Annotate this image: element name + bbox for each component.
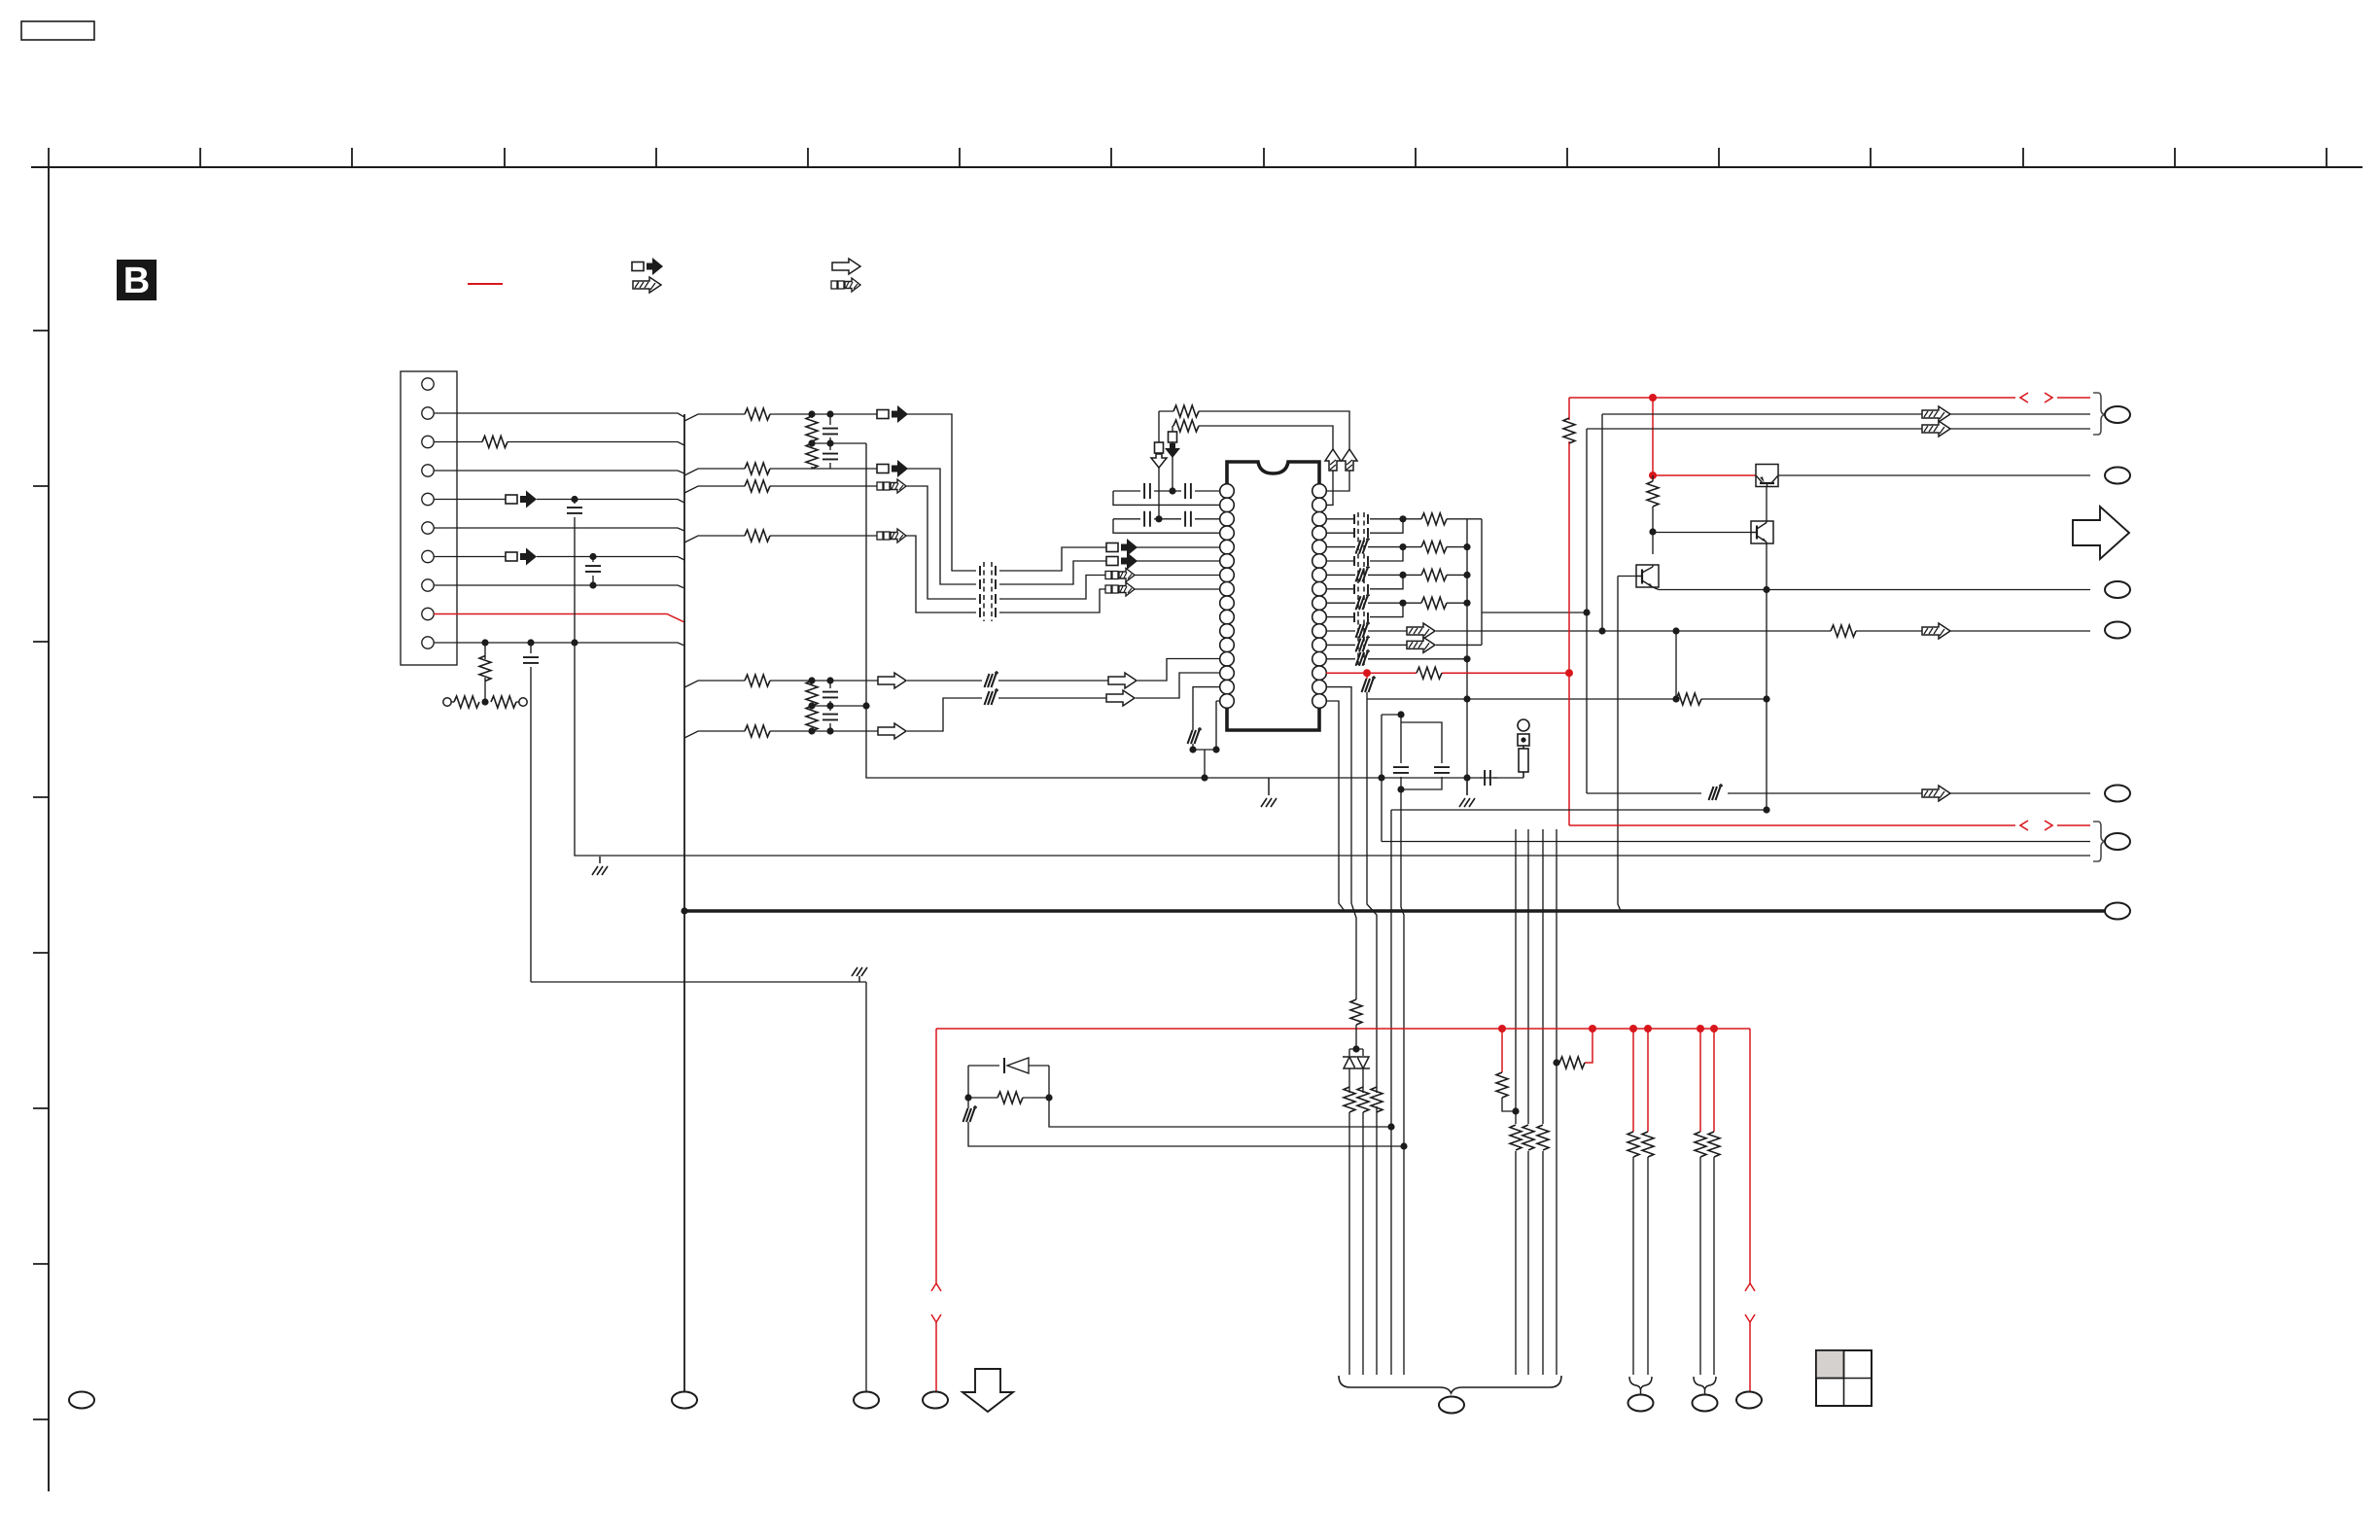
fork	[1349, 1049, 1363, 1056]
zener D-b2 down	[1356, 1057, 1370, 1068]
node bias end	[1763, 695, 1769, 702]
hollow arrow IC L13	[1108, 673, 1137, 688]
node p10-a	[481, 639, 488, 646]
brace output 1	[2093, 393, 2106, 435]
node bus / power line	[681, 907, 687, 914]
wire R10 row riser	[1326, 603, 1403, 616]
sheet label B	[117, 260, 157, 300]
multicap plates R6	[1354, 556, 1368, 566]
vertical net p5 column	[575, 500, 2090, 857]
hatched arrow R12	[1407, 637, 1435, 652]
vertical line4 feed	[1381, 778, 1382, 842]
wire R4 row riser	[1326, 519, 1403, 533]
wire row D	[684, 536, 878, 542]
wire row C to pin L7	[1135, 575, 1220, 577]
caps cluster node	[1397, 711, 1404, 717]
electrolytic cap R12	[1356, 635, 1371, 651]
wire osc line A	[1159, 411, 1349, 491]
electrolytic cap row F	[985, 688, 999, 705]
node R11 line b	[1672, 627, 1679, 634]
red drop to Q1	[1653, 398, 1756, 475]
red node pair1b	[1644, 1025, 1652, 1032]
frame top tick marks	[49, 148, 2327, 167]
parallel vertical	[1467, 519, 1587, 646]
svg-text:B: B	[123, 261, 150, 301]
red break marks left drop	[931, 1283, 941, 1322]
node p5	[571, 496, 577, 503]
resistor R-p10	[479, 656, 491, 682]
resistor R-b2	[1522, 1125, 1534, 1150]
resistor R-chEF1	[806, 681, 818, 706]
terminal ellipse red left	[923, 1392, 948, 1409]
terminal ellipse AGND bottom	[854, 1392, 879, 1409]
resistor R-out2	[1403, 546, 1421, 548]
wire down to P-ellipse	[865, 982, 867, 1392]
resistor R-bA3	[1371, 1087, 1382, 1112]
node red Q1	[1649, 472, 1657, 479]
legend jump arrow (to other page)	[632, 258, 663, 275]
thermistor component	[1518, 719, 1529, 731]
wire row F	[684, 731, 879, 738]
frame horizontal rule	[31, 166, 2362, 168]
resistor R-chAB1	[806, 416, 818, 441]
resistor R-chAB2	[806, 443, 818, 469]
wire pin3	[434, 442, 684, 446]
wire R3 row	[1326, 518, 1403, 520]
resistor R-p3	[482, 437, 507, 448]
red vertical supply	[1568, 398, 1570, 825]
red rail left drop	[935, 1029, 937, 1392]
node chain EF mid	[808, 702, 815, 709]
resistor R-rowA	[745, 408, 770, 420]
ground on long run	[599, 857, 601, 863]
wire R9 row	[1326, 602, 1403, 604]
wires below zeners	[1349, 1068, 1363, 1093]
node R3	[1399, 515, 1406, 522]
jump down arrow b	[1165, 432, 1180, 458]
terminal ellipse pair1	[1628, 1395, 1654, 1412]
wire R7 row	[1326, 574, 1403, 576]
hatched arrow line819	[1922, 786, 1950, 801]
node on b1	[1512, 1107, 1519, 1114]
wire Q3 base feed	[1618, 577, 1636, 912]
wire osc row L3	[1113, 518, 1220, 520]
pair2 drops	[1700, 1157, 1714, 1375]
connector CN body	[401, 371, 457, 665]
loop right out	[1049, 1098, 1391, 1127]
wire row F mid	[907, 698, 1107, 731]
node R9	[1399, 600, 1406, 607]
red power rail bottom	[936, 1028, 1750, 1030]
capacitor C-chAB1	[829, 418, 831, 440]
wire row C staircase	[906, 486, 1106, 599]
wire osc vert b	[1172, 426, 1173, 491]
resistor R-p2a	[1695, 1132, 1706, 1157]
wire osc row L1	[1113, 490, 1220, 492]
red node b1	[1498, 1025, 1506, 1032]
sense line819	[1587, 792, 2090, 794]
bus line	[683, 414, 685, 1392]
resistor R-bA1	[1344, 1087, 1355, 1112]
red break marks top	[2020, 393, 2052, 830]
resistor R-b3	[1537, 1125, 1549, 1150]
bundleB line3	[1542, 829, 1544, 1375]
terminal ellipse out2	[2105, 468, 2130, 484]
node line1179	[1400, 1142, 1407, 1149]
resistor R-p1a	[1627, 1132, 1639, 1157]
bundleB line1	[1515, 829, 1517, 1375]
red line 849	[1569, 824, 2090, 826]
multicap plates R3	[1354, 514, 1368, 524]
hatched arrow line441	[1922, 421, 1950, 437]
zener D-b1 up	[1343, 1057, 1356, 1068]
resistor R-out1	[1403, 518, 1421, 520]
wire AGND run	[531, 981, 866, 983]
resistor R-p1b	[1642, 1132, 1654, 1157]
resistor R-rowD	[745, 530, 770, 542]
terminal circle right	[519, 698, 527, 706]
hollow arrow row E	[878, 673, 906, 688]
wire pin8	[434, 585, 684, 588]
wire osc line B	[1172, 426, 1333, 505]
terminal ellipse out4	[2105, 622, 2130, 639]
resistor R-b1	[1510, 1125, 1522, 1150]
multicap plates R4	[1354, 528, 1368, 538]
down arrow	[962, 1369, 1013, 1412]
wire row B staircase	[907, 469, 1108, 584]
resistor R-p2b	[1708, 1132, 1720, 1157]
multicap common plates	[984, 562, 992, 621]
wire osc row L2	[1113, 491, 1220, 505]
node red topline	[1649, 394, 1657, 402]
bundle line3	[1367, 699, 1377, 1375]
connector pin 8	[422, 579, 434, 591]
capacitor C-osc2b	[1185, 511, 1191, 527]
red wire pin9	[434, 614, 684, 623]
resistor R-bias	[1676, 693, 1701, 705]
electrolytic cap R5	[1356, 538, 1371, 554]
wire R5 row	[1326, 546, 1403, 548]
wire row C	[684, 486, 878, 493]
connector pin 9	[422, 608, 434, 619]
wire pin6	[434, 528, 684, 531]
bundle line5	[1401, 789, 1404, 1375]
resistor R-rowF	[745, 725, 770, 737]
ground tap on return line	[1268, 778, 1270, 795]
node red a	[1363, 669, 1371, 677]
jump arrow IC L5	[1106, 539, 1137, 556]
wire row E mid	[907, 680, 1109, 682]
capacitor C-osc1b	[1185, 483, 1191, 499]
transistor Q1	[1756, 465, 1778, 487]
terminal ellipse power	[2105, 903, 2130, 920]
brace1 line426	[1602, 413, 2090, 415]
node p10-c	[571, 639, 577, 646]
00 arrow row C	[877, 479, 906, 493]
multicap plates R8	[1354, 584, 1368, 594]
brace output 2	[2093, 822, 2106, 861]
electrolytic loop	[967, 1098, 969, 1108]
rail dots	[1463, 543, 1470, 550]
resistor R-trim1	[451, 701, 454, 703]
terminal ellipse bus bottom	[672, 1392, 697, 1409]
RC chain A/B left resistor top	[808, 410, 815, 417]
up arrow R2	[1325, 449, 1341, 471]
wire p10a down	[484, 643, 486, 702]
node osc1	[1169, 487, 1175, 494]
electrolytic cap R9	[1356, 593, 1371, 610]
brace pair2	[1694, 1377, 1716, 1390]
terminal ellipse bundles	[1439, 1397, 1464, 1414]
node Q3 out	[1763, 586, 1769, 593]
jump arrow row B	[877, 460, 908, 477]
up arrow R1	[1342, 449, 1357, 471]
brace pair1	[1629, 1377, 1652, 1390]
bundleB line4	[1556, 829, 1557, 1375]
node R5	[1399, 543, 1406, 550]
resistor R-red1	[1496, 1072, 1508, 1098]
wire row A staircase	[907, 414, 1108, 571]
terminal ellipse out3	[2105, 581, 2130, 598]
diode loop top	[968, 1065, 1049, 1067]
wire pin10	[434, 643, 684, 646]
big brace bundles	[1339, 1376, 1561, 1393]
jump arrow pin7	[506, 548, 537, 566]
red node b2	[1589, 1025, 1596, 1032]
wire R8 row riser	[1326, 575, 1403, 588]
resistor R-red2	[1559, 1057, 1585, 1068]
wire row A	[684, 414, 879, 421]
node chain AB mid	[808, 439, 815, 446]
checker square	[1816, 1350, 1872, 1406]
resistor R-oscB	[1173, 420, 1199, 432]
pair1 drops	[1633, 1157, 1648, 1375]
node p7	[589, 553, 596, 560]
wire row A to pin L5	[1137, 546, 1220, 548]
legend hollow arrow	[832, 259, 860, 274]
capacitor C-p10	[530, 643, 532, 982]
wire row E to pin L13	[1137, 659, 1220, 682]
wire row D to pin L8	[1135, 588, 1220, 590]
wire osc row L4	[1113, 519, 1220, 533]
multicap plates row4	[980, 608, 996, 617]
node caps bottom	[1397, 786, 1404, 792]
resistor R-loop	[997, 1092, 1023, 1103]
IC U1 right pins	[1312, 484, 1327, 709]
electrolytic cap R13	[1356, 649, 1371, 666]
capacitor C-return	[1480, 777, 1497, 779]
connector pin 5	[422, 493, 434, 505]
node line1159	[1387, 1123, 1394, 1130]
red break marks right drop	[1745, 1283, 1755, 1322]
multicap right common plates	[1358, 512, 1364, 665]
bundle line4	[1390, 810, 1392, 1375]
vertical from R11 line	[1675, 631, 1677, 699]
legend 00 hatched arrow	[831, 278, 860, 292]
resistor R-line649	[1831, 625, 1856, 637]
terminal circle left	[443, 698, 451, 706]
node mid630	[1583, 609, 1590, 615]
legend hatched arrow	[633, 277, 661, 293]
terminal ellipse pair2	[1693, 1395, 1718, 1412]
resistor R-red	[1417, 667, 1442, 679]
wire row F to pin L14	[1136, 673, 1220, 698]
red top line	[1569, 397, 2090, 399]
connector pin 10	[422, 637, 434, 648]
capacitor C-chEF2	[829, 706, 831, 731]
title block box	[21, 21, 94, 40]
capacitor C-chEF1	[829, 684, 831, 706]
wire pin5	[434, 500, 684, 504]
resistor R-trim2	[491, 696, 516, 708]
wire pin2 to bus	[434, 413, 684, 417]
node red top	[1565, 669, 1573, 677]
red rail right drop	[1749, 1029, 1751, 1392]
node R7	[1399, 572, 1406, 578]
stray terminal ellipse	[69, 1392, 94, 1409]
resistor R-bA2	[1357, 1087, 1369, 1112]
node osc2	[1155, 515, 1162, 522]
connector pin 4	[422, 465, 434, 476]
wire R13 row	[1326, 658, 1467, 660]
connector pin 1	[422, 378, 434, 390]
node loop right	[1045, 1094, 1052, 1101]
red node pair2a	[1697, 1025, 1704, 1032]
wires to brace	[1349, 1112, 1363, 1375]
vertical 1632 lower	[1586, 612, 1588, 793]
vertical feedback rail	[866, 443, 1523, 778]
hatched arrow line426	[1922, 406, 1950, 422]
resistor R-out4	[1403, 602, 1421, 604]
electrolytic cap R11	[1356, 621, 1371, 638]
node bundleA1	[1352, 1045, 1359, 1052]
electrolytic cap row E	[985, 671, 999, 687]
wire R11 out	[1436, 630, 2090, 632]
resistor R-rowC	[745, 480, 770, 492]
terminal ellipse out5	[2105, 786, 2130, 802]
terminal ellipse out6	[2105, 833, 2130, 850]
capacitor C-osc1a	[1144, 483, 1150, 499]
legend red wire sample	[468, 283, 503, 285]
wire Q2 down	[1766, 543, 1767, 811]
hollow arrow IC L14	[1106, 690, 1135, 706]
hatched arrow line649	[1922, 623, 1950, 639]
wire row B	[684, 469, 879, 475]
node p10-b	[527, 639, 534, 646]
wire row D staircase	[906, 536, 1106, 612]
vertical to line426	[1601, 414, 1603, 631]
jump arrow row A	[877, 405, 908, 423]
wire Q3 out	[1659, 589, 2090, 591]
connector pin 2	[422, 407, 434, 419]
resistor R-oscA	[1173, 405, 1199, 417]
capacitor C-osc2a	[1144, 511, 1150, 527]
wire pin7	[434, 557, 684, 561]
multicap plates row2	[980, 579, 996, 589]
rail right of IC	[1466, 519, 1468, 778]
00 arrow IC L7	[1105, 569, 1135, 582]
wire R16 down	[1326, 701, 1345, 911]
wire pin4	[434, 471, 684, 473]
wire row E	[684, 681, 879, 687]
capacitor C-chAB2	[829, 447, 831, 469]
wire R15 down	[1326, 687, 1356, 999]
vertical to line441	[1586, 429, 1588, 612]
multicap plates row3	[980, 594, 996, 604]
node p8	[589, 581, 596, 588]
transistor Q3	[1636, 565, 1659, 590]
wire Q3 top	[1652, 532, 1654, 554]
node Q2 base	[1649, 528, 1656, 535]
wire cluster drop	[1204, 750, 1206, 778]
big arrow	[2073, 507, 2129, 559]
wire Q1 out	[1778, 474, 2090, 476]
bias line y719	[1367, 698, 1767, 700]
IC U1 body	[1227, 462, 1319, 730]
jump arrow IC L6	[1106, 552, 1137, 570]
resistor R-Qbias	[1652, 475, 1654, 481]
node L16	[1189, 746, 1196, 752]
node R11 line a	[1598, 627, 1605, 634]
node 1724	[1672, 695, 1679, 702]
line 867	[1382, 841, 2090, 843]
capacitor C-p7p8	[592, 557, 594, 586]
connector pin 7	[422, 550, 434, 562]
node on return line	[1201, 774, 1207, 781]
node line833 end	[1763, 806, 1769, 813]
red node pair2b	[1710, 1025, 1718, 1032]
terminal ellipse red right	[1736, 1392, 1762, 1409]
capacitor C-cl1	[1400, 715, 1402, 789]
resistor R-chEF2	[806, 706, 818, 731]
node loop left	[964, 1094, 971, 1101]
jump arrow pin5	[506, 491, 537, 508]
red stub 2	[1585, 1029, 1592, 1063]
rail ground	[1466, 778, 1468, 795]
red stubs pair1	[1633, 1029, 1648, 1132]
wire row B to pin L6	[1137, 560, 1220, 562]
connector pin 3	[422, 436, 434, 447]
connector pin 6	[422, 522, 434, 534]
electrolytic to gnd at red	[1366, 673, 1368, 679]
diode D-loop	[1007, 1058, 1029, 1073]
terminal ellipse out1	[2105, 406, 2130, 423]
line 833	[1391, 809, 1767, 811]
wire R12 row	[1326, 644, 1408, 646]
multicap plates R10	[1354, 612, 1368, 622]
00 arrow row D	[877, 529, 906, 542]
resistor R-bundleA1	[1350, 999, 1362, 1025]
bundleB line2	[1527, 829, 1529, 1375]
IC U1 left pins	[1220, 484, 1235, 709]
wire Q2 base	[1653, 532, 1751, 534]
diode loop sides	[968, 1066, 1049, 1098]
resistor R-out3	[1403, 574, 1421, 576]
wire R11 row	[1326, 630, 1408, 632]
resistor R-rowB	[745, 463, 770, 474]
frame left tick marks	[33, 331, 49, 1419]
capacitor C-p5	[567, 507, 582, 513]
hatched arrow R11	[1407, 623, 1435, 639]
red stub to resistor	[1501, 1029, 1503, 1072]
wire Q1-Q2	[1766, 487, 1767, 521]
transistor Q2	[1751, 521, 1773, 543]
hollow arrow row F	[878, 723, 906, 739]
frame vertical rule	[48, 167, 50, 1491]
ground at AGND corner	[858, 976, 860, 982]
multicap plates row1	[980, 566, 996, 576]
wire R12 out	[1436, 644, 1482, 646]
